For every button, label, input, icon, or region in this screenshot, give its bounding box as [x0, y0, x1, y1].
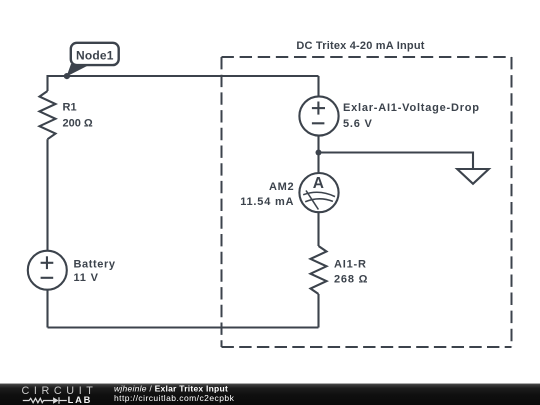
footer bar	[0, 384, 540, 405]
wire: bottom horizontal rail	[48, 326, 319, 328]
wire: top horizontal (Node1 net)	[48, 75, 319, 77]
wire: left vertical from top corner to R1	[46, 75, 48, 91]
ammeter AM2 (circle, A, scale arcs, needle)	[299, 173, 338, 212]
svg-text:A: A	[313, 175, 324, 192]
resistor R1 (zigzag)	[40, 91, 56, 139]
svg-text:AM2: AM2	[269, 181, 294, 193]
svg-text:AI1-R: AI1-R	[334, 258, 367, 270]
wire: battery to bottom rail	[46, 290, 48, 328]
wire: voltage source top to top rail	[317, 76, 319, 96]
voltage source Exlar-AI1-Voltage-Drop (circle with + -)	[299, 96, 338, 135]
wire: junction to ground (horizontal + drop)	[319, 153, 474, 170]
svg-text:Battery: Battery	[74, 259, 116, 271]
wire: bottom rail up to AI1-R	[317, 294, 319, 328]
node label Node1 (callout)	[64, 43, 119, 79]
svg-text:11.54 mA: 11.54 mA	[240, 196, 294, 208]
svg-text:LAB: LAB	[68, 395, 93, 405]
svg-text:200 Ω: 200 Ω	[63, 117, 93, 129]
junction dot	[316, 150, 322, 156]
svg-text:5.6 V: 5.6 V	[343, 118, 373, 130]
svg-text:268 Ω: 268 Ω	[334, 273, 368, 285]
dashed annotation box "DC Tritex 4-20 mA Input"	[222, 57, 512, 347]
ground symbol	[457, 169, 489, 184]
svg-text:R1: R1	[63, 102, 77, 114]
svg-text:11 V: 11 V	[74, 272, 99, 284]
wire: ammeter to junction node	[317, 153, 319, 174]
wire: AI1-R to ammeter	[317, 212, 319, 246]
voltage source Battery (circle with + -)	[28, 251, 67, 290]
svg-text:Node1: Node1	[76, 48, 114, 62]
svg-text:http://circuitlab.com/c2ecpbk: http://circuitlab.com/c2ecpbk	[114, 393, 235, 403]
resistor AI1-R (zigzag)	[311, 246, 327, 294]
svg-text:Exlar-AI1-Voltage-Drop: Exlar-AI1-Voltage-Drop	[343, 102, 480, 114]
wire: R1 to battery	[46, 139, 48, 250]
wire: junction to voltage source V bottom	[317, 136, 319, 153]
CircuitLab logo symbol (resistor + diode)	[23, 397, 67, 404]
svg-text:DC Tritex 4-20 mA Input: DC Tritex 4-20 mA Input	[296, 40, 424, 52]
svg-text:wjheinle / Exlar Tritex Input: wjheinle / Exlar Tritex Input	[114, 383, 228, 393]
